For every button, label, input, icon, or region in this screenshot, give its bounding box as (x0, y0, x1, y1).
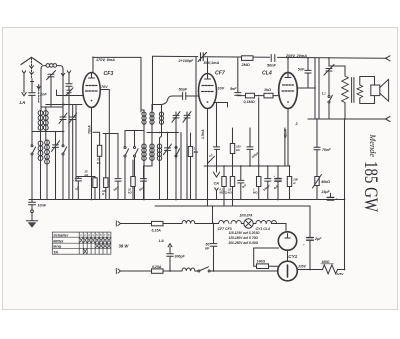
wire: HT line B (205V) (153, 56, 387, 58)
CF7 top cap (205, 74, 211, 79)
capacitor 50nF 2 (140, 166, 152, 200)
svg-text:24μF: 24μF (321, 190, 331, 194)
antenna symbol (21, 57, 42, 64)
coupling arrow on right wire (61, 73, 64, 79)
wire: barretter out (297, 269, 322, 271)
coil D2 (150, 144, 154, 148)
node: earth connector (31, 210, 34, 213)
wire: grid leak leads (258, 98, 260, 200)
svg-text:70mA: 70mA (87, 125, 91, 134)
secondary loop (360, 77, 375, 104)
svg-text:125-150V auf S 70Ω: 125-150V auf S 70Ω (229, 236, 259, 240)
wire: left link line (32, 108, 64, 141)
jack break arrow (215, 188, 219, 194)
table column digits (80, 233, 110, 237)
wire: 5nF tone drop (307, 58, 309, 70)
svg-text:LA: LA (159, 239, 164, 243)
svg-text:50nF: 50nF (267, 63, 277, 67)
choke 1 (182, 221, 195, 224)
capacitor 4uF electrolytic (277, 166, 279, 200)
svg-text:Schalter: Schalter (53, 233, 69, 237)
wire: S1 leads (124, 131, 126, 200)
svg-text:38 W: 38 W (119, 243, 130, 248)
svg-text:+: + (274, 174, 276, 178)
trimmer C7 (183, 112, 191, 123)
wire: trimmer C3 to bus (62, 120, 64, 200)
svg-text:TA: TA (53, 250, 58, 254)
svg-text:2+100pF: 2+100pF (178, 59, 195, 63)
trimmer 2+100pF (198, 53, 207, 62)
wire: extra drop x181 (180, 133, 182, 200)
arrowhead up (168, 244, 172, 247)
svg-text:2μF: 2μF (314, 237, 322, 241)
capacitor 50nF mains (210, 224, 217, 272)
wire: 1MOhm leads (190, 133, 192, 200)
table X mark TA row (84, 249, 87, 254)
fuse 6,15A (152, 221, 164, 225)
wire: cathode feed line (76, 176, 95, 178)
heater CF3 (231, 221, 241, 224)
capacitor 5nF tone (305, 70, 311, 73)
wire: 25k leads (94, 177, 96, 200)
svg-text:70V: 70V (101, 85, 108, 89)
wire: antenna cap branch (31, 82, 33, 93)
CF7 electrodes (202, 86, 214, 92)
wire: C6 to bus (175, 118, 177, 200)
svg-text:1,7mA: 1,7mA (201, 129, 205, 139)
wire: mains line 1 (121, 223, 219, 225)
svg-text:0,1MΩ: 0,1MΩ (244, 100, 255, 104)
svg-text:10nF: 10nF (38, 204, 47, 208)
wire: lower coil leads (144, 160, 160, 200)
wire: LA lead (23, 79, 25, 93)
wire: antenna lead (dashed) (31, 58, 33, 78)
fuse 6,25A (152, 269, 164, 273)
capacitor 100pF (screen) (247, 128, 253, 166)
wire: lower coils to bus (41, 161, 48, 200)
svg-text:200-250V auf S-60Ω: 200-250V auf S-60Ω (228, 241, 259, 245)
resistor 0,1MOhm(2) (222, 177, 226, 187)
CL4 top cap (285, 73, 291, 78)
resistor 1MOhm grid leak (257, 177, 261, 187)
CF3 cathode dot (91, 100, 93, 102)
coil U3 (159, 112, 163, 116)
wire: box leads down (41, 107, 46, 111)
wire: CF7 cathode to bus (207, 109, 209, 207)
arrowhead LA (22, 93, 26, 96)
capacitor 10nF to earth (29, 200, 36, 210)
wire: B+ drop to output (315, 58, 319, 119)
resistor 165Ohm zigzag (323, 265, 338, 274)
barretter filament (287, 265, 289, 277)
dial lamp 10/0,07A (244, 219, 253, 228)
resistor 15kOhm (230, 177, 234, 187)
choke 2 (182, 268, 195, 271)
wire: 50pF to CF7 (186, 95, 199, 97)
heater CL4 (266, 221, 276, 224)
switch S2 (134, 147, 136, 149)
wire: C7 down (186, 118, 188, 200)
node dots (159, 132, 161, 134)
barretter lamp (278, 261, 298, 281)
svg-text:300pF: 300pF (175, 255, 186, 259)
trimmer C5 (52, 132, 60, 152)
antenna lead arrowheads (30, 66, 34, 75)
svg-text:40kΩ: 40kΩ (320, 180, 330, 184)
wire: LA antenna tap (169, 247, 171, 254)
wire: bus2 to heater line (212, 206, 214, 224)
ground (26, 220, 37, 222)
wire: tone to bus (328, 103, 330, 119)
antenna coil L1 frame (41, 66, 63, 107)
wire: 10k leads (132, 160, 134, 200)
CL4 electrodes (282, 85, 294, 91)
trimmer C3 (59, 105, 67, 124)
svg-text:MΩ(2): MΩ(2) (220, 191, 228, 195)
tube CL4 (279, 73, 298, 109)
svg-text:42mA: 42mA (284, 129, 288, 139)
wire: U2 U3 tops (152, 105, 162, 113)
node: aerial terminal Y (22, 71, 25, 79)
table X marks lang row (96, 244, 111, 248)
secondary winding (357, 85, 363, 98)
capacitor 2nF (29, 93, 36, 96)
trimmer wave trap (66, 88, 74, 96)
wire: leads (223, 166, 225, 206)
trimmer C6 (172, 112, 180, 123)
svg-text:+: + (303, 243, 305, 247)
wire (241, 223, 243, 225)
wire: transformer feed (329, 58, 345, 76)
resistor 10kOhm (131, 177, 135, 187)
wire: vertical x141 to IF coil (140, 57, 142, 110)
wire: C8 leads (167, 133, 169, 200)
resistor 200Ohm (287, 177, 291, 187)
tube CF3 (83, 73, 100, 108)
transformer core (352, 78, 354, 103)
wire: second bus (155, 205, 310, 207)
wire (253, 223, 256, 225)
resistor 2MOhm (series in line B) (242, 56, 254, 61)
wire: jack leads (216, 166, 218, 200)
wire: grid line CF7 with curve (162, 96, 183, 105)
wire: mains line 2 (121, 270, 198, 272)
svg-text:lang: lang (53, 245, 61, 249)
wire: CY1 to barretter (287, 250, 289, 261)
wire: screen line y166 (204, 165, 290, 167)
wire: riser CF3 anode (92, 57, 94, 73)
svg-text:170V, 5mA: 170V, 5mA (96, 58, 115, 62)
CF3 top cap (89, 74, 95, 79)
svg-text:50pF: 50pF (179, 88, 188, 92)
svg-text:LA: LA (20, 100, 26, 105)
antenna coil L1 loops (46, 64, 50, 68)
wire: main ground bus (29, 199, 345, 201)
tube CF7 (199, 74, 217, 109)
wire: tap line y133 (103, 131, 179, 134)
wire: W1 leads (31, 132, 33, 200)
wire: riser CL4 anode (287, 58, 289, 73)
plug symbol (30, 79, 33, 82)
wire: drop x284.9 (284, 128, 286, 166)
wire: U1 top from line A (141, 110, 144, 112)
svg-text:Mittel: Mittel (53, 239, 64, 243)
wire: 200Ohm leads (289, 166, 291, 200)
svg-text:+: + (72, 179, 74, 183)
capacitor wave trap (66, 77, 72, 91)
mains plug pin 1 (116, 221, 120, 226)
svg-text:CY1: CY1 (288, 254, 297, 259)
rectifier CY1 (278, 232, 296, 250)
switch S1 (124, 147, 126, 149)
switch W2 (62, 145, 64, 147)
wire: between (316, 150, 318, 177)
wire: coil middles (144, 124, 162, 144)
coil U2 (150, 112, 154, 116)
wire: vertical x152.5 to filter2 (152, 56, 154, 110)
wire: arrow end of line B (386, 56, 391, 61)
wire: CF3 bottom lead to bus (91, 108, 93, 200)
CF3 electrodes (86, 86, 98, 92)
resistor 0,1MOhm series (246, 93, 255, 98)
wire: heater end to CY1 (271, 224, 286, 231)
capacitor 50nF series (271, 55, 275, 62)
wire: extra drop x196 (195, 57, 197, 200)
wire: AVC drop (100, 90, 109, 200)
trimmer inside box (47, 71, 56, 107)
coil L3a lower (38, 141, 43, 146)
CY1 anode tick (285, 234, 290, 239)
resistor box R bottom left (104, 178, 108, 188)
node dots main (31, 57, 346, 272)
wire: right column drop (316, 119, 318, 147)
svg-text:225V: 225V (336, 272, 345, 276)
svg-text:1kΩ: 1kΩ (264, 88, 271, 92)
wire: HT line A (170V) (93, 56, 141, 58)
svg-text:L2: L2 (322, 92, 326, 96)
wire: primary bottom (344, 103, 346, 119)
wire: 5nF to anode line (307, 73, 309, 88)
wire: to heater chain (210, 270, 278, 272)
resistor 1kOhm (264, 93, 273, 98)
switch S3 (175, 147, 177, 149)
wire: CL4 cathode to bus (287, 109, 289, 167)
capacitor 0,1 (x216.5) (213, 140, 219, 166)
heater CY1 (256, 221, 266, 224)
wire: to ground (31, 213, 33, 221)
capacitor 70nF (314, 147, 320, 150)
switch table frame (52, 232, 111, 254)
svg-text:70nF: 70nF (322, 148, 331, 152)
wire: between resistors (255, 95, 265, 97)
node dots screen line (207, 165, 291, 167)
resistor 150kOhm screen (230, 144, 234, 154)
capacitor C bottom (115, 134, 121, 200)
wire: CF7 side lead (214, 103, 228, 141)
svg-text:6,25A: 6,25A (152, 265, 162, 269)
wire: CF3 cathode line (46, 104, 82, 106)
svg-text:6,15A: 6,15A (152, 228, 162, 232)
capacitor 1uF cathode (75, 177, 81, 200)
heater CF7 (219, 221, 229, 224)
mains switch (198, 270, 200, 272)
wire: S2 leads (134, 131, 136, 200)
svg-text:10/0,07A: 10/0,07A (240, 214, 254, 218)
svg-text:5nF: 5nF (298, 68, 305, 72)
coil L2b upper (43, 111, 48, 116)
svg-text:CL4: CL4 (262, 71, 272, 77)
svg-text:5nF: 5nF (230, 87, 237, 91)
wire: CY1 cathode to 140Ohm (254, 248, 279, 266)
wire: riser CF7 anode (207, 58, 209, 74)
svg-text:115-125V auf S 203Ω: 115-125V auf S 203Ω (229, 231, 260, 235)
wire: below 2nF (31, 95, 33, 108)
wire: to CL4 grid (273, 95, 279, 97)
coil L2a upper (38, 111, 43, 116)
trimmer C4 (69, 105, 77, 200)
wire: 15k lead (232, 187, 234, 207)
wire: pot to bus (316, 186, 318, 200)
resistor 75kOhm (93, 132, 100, 199)
capacitor 100pF 2 (265, 166, 271, 200)
svg-text:CF3: CF3 (104, 71, 114, 77)
jack CA (213, 172, 219, 177)
wire: 5nF coupling drop (237, 58, 239, 93)
trimmer C8 (164, 144, 172, 155)
wire: 150k leads (232, 128, 234, 177)
CL4 cathode dot (287, 101, 289, 103)
mains plug pin 2 (116, 268, 120, 273)
wire: 1uF feed (75, 105, 77, 181)
node: wave trap terminal (67, 71, 70, 77)
coil U1 (osc) (142, 112, 146, 116)
switch tone (328, 96, 330, 98)
table X marks Mittel row (80, 238, 111, 243)
svg-text:2nF: 2nF (39, 92, 47, 96)
capacitor 2uF (309, 240, 311, 269)
wire: zigzag to HT rail (338, 269, 345, 271)
coil D3 (157, 144, 161, 148)
wire: output ground bus (308, 118, 387, 120)
wire: wave trap to bus (68, 93, 70, 200)
svg-text:165Ω: 165Ω (322, 260, 330, 264)
svg-text:CF7: CF7 (215, 71, 226, 77)
coil L3b lower (45, 140, 50, 145)
svg-text:225V: 225V (297, 265, 306, 269)
dashed tuning lead (38, 90, 40, 104)
resistor 1MOhm (osc) (188, 147, 192, 157)
capacitor 5nF coupling (235, 93, 241, 96)
potentiometer 40kOhm (315, 177, 319, 186)
svg-text:Mende: Mende (368, 133, 377, 157)
wire: tone lead (328, 71, 330, 95)
capacitor 50pF series (183, 93, 186, 100)
svg-text:50V,1mA: 50V,1mA (204, 61, 220, 65)
speaker cone (380, 79, 389, 101)
wire: CF3 grid line (57, 90, 83, 96)
switch W1 (31, 145, 33, 147)
capacitor 5nF bypass (238, 166, 244, 200)
svg-text:CA: CA (214, 182, 220, 186)
resistor 25kOhm CF3 cathode (93, 178, 97, 188)
wire: smoothing drop (309, 206, 311, 238)
wire: grid line (238, 94, 246, 96)
wire: R leads (105, 134, 107, 200)
wire: 140Ohm to barretter (269, 265, 278, 267)
wire: CL4 anode line (297, 87, 315, 89)
tone corrector C2 (324, 65, 334, 76)
CF7 cathode dot (207, 101, 209, 103)
svg-text:185 GW: 185 GW (360, 161, 380, 212)
capacitor 24uF (330, 193, 332, 197)
capacitor 300pF (167, 254, 174, 271)
wire: C5 to bus (55, 147, 57, 199)
arrow end output bus (386, 117, 391, 122)
transformer primary winding (342, 76, 349, 103)
coil D1 (lower) (142, 144, 146, 148)
svg-text:10V: 10V (218, 87, 225, 91)
wire: HT feed down right (344, 119, 346, 269)
svg-text:2MΩ: 2MΩ (241, 63, 250, 67)
svg-text:140Ω: 140Ω (257, 260, 266, 264)
resistor 140Ohm (257, 264, 269, 269)
speaker magnet (371, 85, 380, 96)
